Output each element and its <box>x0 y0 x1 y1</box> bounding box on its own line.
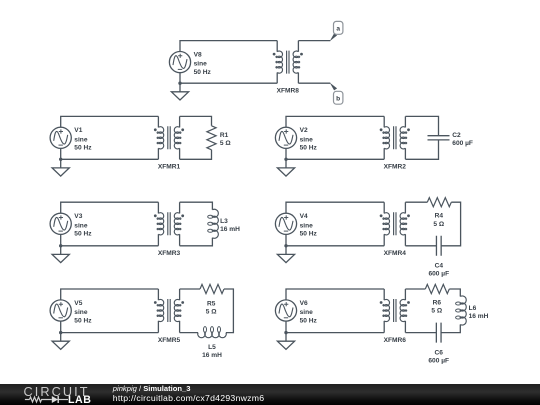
svg-text:XFMR8: XFMR8 <box>277 88 300 95</box>
ground <box>277 246 294 263</box>
svg-text:L3: L3 <box>220 218 228 225</box>
svg-text:XFMR6: XFMR6 <box>384 337 407 344</box>
wire <box>286 116 384 127</box>
svg-text:sine: sine <box>194 61 208 68</box>
junction node <box>59 331 62 334</box>
label C6 600 µF <box>428 350 449 365</box>
svg-text:sine: sine <box>74 222 88 229</box>
logo waveform wire <box>24 398 29 400</box>
wire <box>286 202 384 213</box>
voltage source V5 <box>50 300 71 321</box>
node a (terminal flag) <box>330 21 343 41</box>
svg-text:V1: V1 <box>74 127 82 134</box>
transformer XFMR8 <box>273 41 303 84</box>
wire <box>180 288 200 290</box>
CircuitLab logo <box>0 384 110 405</box>
svg-text:sine: sine <box>300 309 314 316</box>
ground <box>171 83 188 100</box>
inductor L3 <box>208 209 219 238</box>
ground <box>277 333 294 350</box>
label R4 5 Ω <box>433 213 444 228</box>
node b (terminal flag) <box>330 83 343 105</box>
junction node <box>178 82 181 85</box>
footer title text <box>113 384 265 403</box>
wire <box>286 234 384 245</box>
resistor R1 <box>207 126 216 150</box>
label C2 600 µF <box>452 132 473 147</box>
label V3 sine 50 Hz <box>74 213 92 237</box>
wire <box>441 325 460 333</box>
svg-text:16 mH: 16 mH <box>202 352 222 359</box>
wire <box>180 116 212 125</box>
wire <box>405 288 425 290</box>
wire <box>61 234 159 245</box>
wire <box>405 201 427 203</box>
wire <box>298 40 330 42</box>
wire <box>286 148 384 159</box>
resistor R5 <box>200 284 224 293</box>
svg-text:a: a <box>336 26 340 33</box>
svg-text:R5: R5 <box>207 300 216 307</box>
ground <box>52 159 69 176</box>
wire <box>441 202 460 246</box>
transformer XFMR2 <box>380 116 410 159</box>
label L5 16 mH <box>202 344 222 359</box>
svg-text:R1: R1 <box>220 132 229 139</box>
svg-text:5 Ω: 5 Ω <box>433 221 444 228</box>
wire <box>61 289 159 300</box>
svg-text:5 Ω: 5 Ω <box>220 140 231 147</box>
svg-text:V6: V6 <box>300 300 308 307</box>
voltage source V8 <box>169 52 190 73</box>
inductor L5 <box>198 327 227 338</box>
junction node <box>284 244 287 247</box>
svg-text:R4: R4 <box>435 213 444 220</box>
wire <box>180 41 277 52</box>
capacitor C2 <box>428 136 450 140</box>
voltage source V4 <box>275 213 296 234</box>
wire <box>61 321 159 333</box>
junction node <box>284 158 287 161</box>
svg-text:50 Hz: 50 Hz <box>194 69 212 76</box>
voltage source V2 <box>275 127 296 148</box>
svg-text:sine: sine <box>74 309 88 316</box>
label V2 sine 50 Hz <box>300 127 318 151</box>
transformer XFMR4 <box>380 202 410 246</box>
svg-text:16 mH: 16 mH <box>220 226 240 233</box>
transformer XFMR1 <box>154 116 184 159</box>
wire <box>298 82 330 84</box>
wire <box>405 332 436 334</box>
inductor L6 <box>456 296 467 325</box>
svg-text:V2: V2 <box>300 127 308 134</box>
svg-text:XFMR3: XFMR3 <box>158 250 181 257</box>
svg-text:sine: sine <box>300 136 314 143</box>
wire <box>286 321 384 333</box>
svg-text:50 Hz: 50 Hz <box>300 317 318 324</box>
svg-text:50 Hz: 50 Hz <box>74 145 92 152</box>
ground <box>52 246 69 263</box>
wire <box>180 202 213 210</box>
svg-text:XFMR4: XFMR4 <box>384 250 407 257</box>
label V5 sine 50 Hz <box>74 300 92 324</box>
svg-text:L5: L5 <box>208 344 216 351</box>
svg-text:5 Ω: 5 Ω <box>206 309 217 316</box>
wire <box>180 332 198 334</box>
wire <box>405 245 436 247</box>
wire <box>61 202 159 213</box>
svg-text:C4: C4 <box>435 262 444 269</box>
label R6 5 Ω <box>431 300 442 315</box>
svg-text:R6: R6 <box>433 300 442 307</box>
wire <box>61 148 159 159</box>
label V4 sine 50 Hz <box>300 213 318 237</box>
label R1 5 Ω <box>220 132 231 147</box>
ground <box>277 159 294 176</box>
capacitor C4 <box>436 236 441 256</box>
svg-text:XFMR1: XFMR1 <box>158 164 181 171</box>
wire <box>61 116 159 127</box>
svg-text:sine: sine <box>74 136 88 143</box>
junction node <box>284 331 287 334</box>
wire <box>286 289 384 300</box>
svg-text:sine: sine <box>300 222 314 229</box>
label R5 5 Ω <box>206 300 217 315</box>
wire <box>180 238 213 246</box>
svg-text:XFMR2: XFMR2 <box>384 164 407 171</box>
wire <box>180 150 212 160</box>
svg-text:V4: V4 <box>300 213 308 220</box>
voltage source V1 <box>50 127 71 148</box>
svg-text:600 µF: 600 µF <box>428 271 449 278</box>
wire <box>405 116 438 135</box>
svg-text:C2: C2 <box>452 132 461 139</box>
wire <box>180 73 277 84</box>
svg-text:L6: L6 <box>469 305 477 312</box>
svg-text:50 Hz: 50 Hz <box>300 145 318 152</box>
voltage source V3 <box>50 213 71 234</box>
ground <box>52 333 69 350</box>
svg-text:50 Hz: 50 Hz <box>74 231 92 238</box>
svg-text:600 µF: 600 µF <box>452 140 473 147</box>
label V6 sine 50 Hz <box>300 300 318 324</box>
resistor R4 <box>427 198 451 207</box>
transformer XFMR5 <box>154 289 184 333</box>
junction node <box>59 244 62 247</box>
logo resistor zigzag <box>29 397 51 402</box>
label L3 16 mH <box>220 218 240 233</box>
label L6 16 mH <box>469 305 489 320</box>
svg-text:16 mH: 16 mH <box>469 313 489 320</box>
label V8 sine 50 Hz <box>194 52 212 76</box>
junction node <box>59 158 62 161</box>
transformer XFMR6 <box>380 289 410 333</box>
capacitor C6 <box>436 323 441 343</box>
svg-text:5 Ω: 5 Ω <box>431 308 442 315</box>
svg-text:50 Hz: 50 Hz <box>74 317 92 324</box>
logo diode <box>51 396 57 403</box>
transformer XFMR3 <box>154 202 184 246</box>
label C4 600 µF <box>428 262 449 277</box>
wire <box>405 140 438 159</box>
svg-text:V8: V8 <box>194 52 202 59</box>
voltage source V6 <box>275 300 296 321</box>
svg-text:XFMR5: XFMR5 <box>158 337 181 344</box>
svg-text:C6: C6 <box>434 350 443 357</box>
svg-text:600 µF: 600 µF <box>428 358 449 365</box>
svg-text:V3: V3 <box>74 213 82 220</box>
label V1 sine 50 Hz <box>74 127 92 151</box>
wire <box>449 289 460 297</box>
svg-text:V5: V5 <box>74 300 82 307</box>
svg-text:50 Hz: 50 Hz <box>300 231 318 238</box>
resistor R6 <box>425 284 449 293</box>
svg-text:b: b <box>336 96 340 103</box>
wire <box>224 289 233 333</box>
